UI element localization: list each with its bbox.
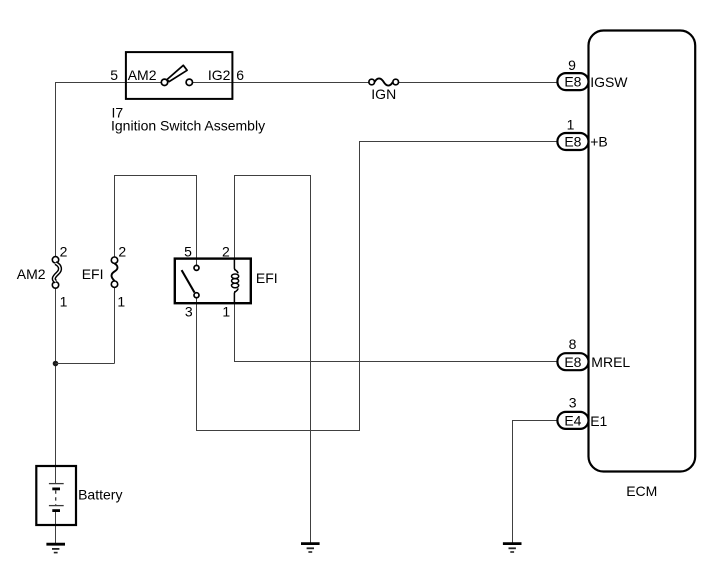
battery bbox=[36, 466, 76, 525]
svg-text:1: 1 bbox=[222, 304, 230, 320]
wire ignition switch right to IGN fuse bbox=[192, 82, 369, 84]
svg-text:E8: E8 bbox=[564, 134, 581, 150]
wire AM2 fuse bottom down to battery bbox=[55, 288, 57, 484]
wire E1 ground drop bbox=[512, 420, 514, 543]
ECM box U1 bbox=[589, 31, 696, 472]
connector E8 pin 9 IGSW pill bbox=[557, 73, 588, 90]
ground relay coil return bbox=[301, 544, 320, 552]
wire relay pin 2 to ground drop horizontal bbox=[234, 175, 311, 177]
wire ECM E1 pill left bbox=[512, 420, 557, 422]
relay switch contact pin 3 bbox=[194, 293, 199, 298]
relay switch contact pin 5 bbox=[194, 265, 199, 270]
switch contact AM2 side bbox=[161, 79, 167, 85]
wire EFI fuse bottom vertical bbox=[114, 287, 116, 363]
svg-text:5: 5 bbox=[110, 67, 118, 83]
wire relay coil pin 1 down bbox=[234, 291, 236, 362]
wire junction to EFI fuse branch horizontal bbox=[56, 363, 115, 365]
wire battery rail top horizontal to ignition switch bbox=[55, 82, 126, 84]
wire relay pin 3 horizontal run bbox=[196, 430, 360, 432]
ground below battery bbox=[46, 544, 65, 552]
svg-text:E1: E1 bbox=[590, 413, 607, 429]
svg-text:1: 1 bbox=[117, 293, 125, 309]
ignition switch assembly box I7 bbox=[126, 52, 232, 99]
svg-text:Ignition Switch Assembly: Ignition Switch Assembly bbox=[111, 118, 265, 134]
wire ground drop vertical bbox=[310, 175, 312, 543]
wire riser to +B level bbox=[359, 141, 361, 431]
svg-text:2: 2 bbox=[60, 244, 68, 260]
svg-text:1: 1 bbox=[60, 293, 68, 309]
svg-text:ECM: ECM bbox=[626, 483, 657, 499]
svg-text:E4: E4 bbox=[564, 413, 581, 429]
connector E4 pin 3 E1 pill bbox=[557, 412, 588, 429]
svg-text:MREL: MREL bbox=[591, 354, 630, 370]
svg-text:5: 5 bbox=[184, 243, 192, 259]
svg-text:IGN: IGN bbox=[371, 86, 396, 102]
svg-text:IGSW: IGSW bbox=[590, 74, 628, 90]
wire EFI fuse top up bbox=[114, 175, 116, 257]
wire relay pin 3 down bbox=[196, 298, 198, 431]
wire battery negative to ground bbox=[55, 511, 57, 544]
relay EFI box bbox=[175, 259, 251, 304]
connector E8 pin 8 MREL pill bbox=[557, 353, 588, 370]
svg-text:3: 3 bbox=[569, 395, 577, 411]
fuse IGN bbox=[369, 78, 399, 85]
relay switch arm bbox=[182, 270, 195, 292]
wire ignition switch internal left bbox=[126, 82, 162, 84]
svg-text:2: 2 bbox=[222, 243, 230, 259]
wire battery rail vertical down to AM2 fuse bbox=[55, 82, 57, 257]
svg-text:AM2: AM2 bbox=[17, 266, 46, 282]
svg-text:EFI: EFI bbox=[256, 270, 278, 286]
switch lever bbox=[167, 65, 187, 81]
wire down into relay pin 5 bbox=[196, 175, 198, 265]
svg-text:IG2: IG2 bbox=[208, 67, 231, 83]
svg-text:3: 3 bbox=[185, 304, 193, 320]
fuse AM2 (fusible link) bbox=[52, 257, 60, 289]
svg-text:1: 1 bbox=[567, 116, 575, 132]
svg-text:9: 9 bbox=[568, 57, 576, 73]
svg-text:E8: E8 bbox=[564, 74, 581, 90]
svg-text:AM2: AM2 bbox=[128, 67, 157, 83]
wire relay pin 1 to ECM MREL pill bbox=[234, 361, 557, 363]
wire relay coil pin 2 up bbox=[234, 175, 236, 271]
svg-text:Battery: Battery bbox=[78, 486, 122, 502]
wire EFI fuse to relay pin 5 horizontal bbox=[114, 175, 197, 177]
svg-text:+B: +B bbox=[590, 134, 608, 150]
relay coil bbox=[232, 259, 239, 304]
wire IGN fuse to ECM IGSW pill bbox=[399, 82, 558, 84]
svg-text:8: 8 bbox=[569, 336, 577, 352]
fuse EFI bbox=[111, 257, 117, 287]
node junction battery rail / EFI fuse branch bbox=[53, 361, 59, 367]
svg-text:EFI: EFI bbox=[82, 266, 104, 282]
connector E8 pin 1 +B pill bbox=[557, 133, 588, 150]
svg-text:6: 6 bbox=[236, 67, 244, 83]
switch contact IG2 side bbox=[186, 79, 192, 85]
svg-text:2: 2 bbox=[118, 244, 126, 260]
ground ECM E1 bbox=[503, 544, 522, 552]
wire to ECM +B pill bbox=[359, 141, 557, 143]
svg-text:E8: E8 bbox=[564, 354, 581, 370]
